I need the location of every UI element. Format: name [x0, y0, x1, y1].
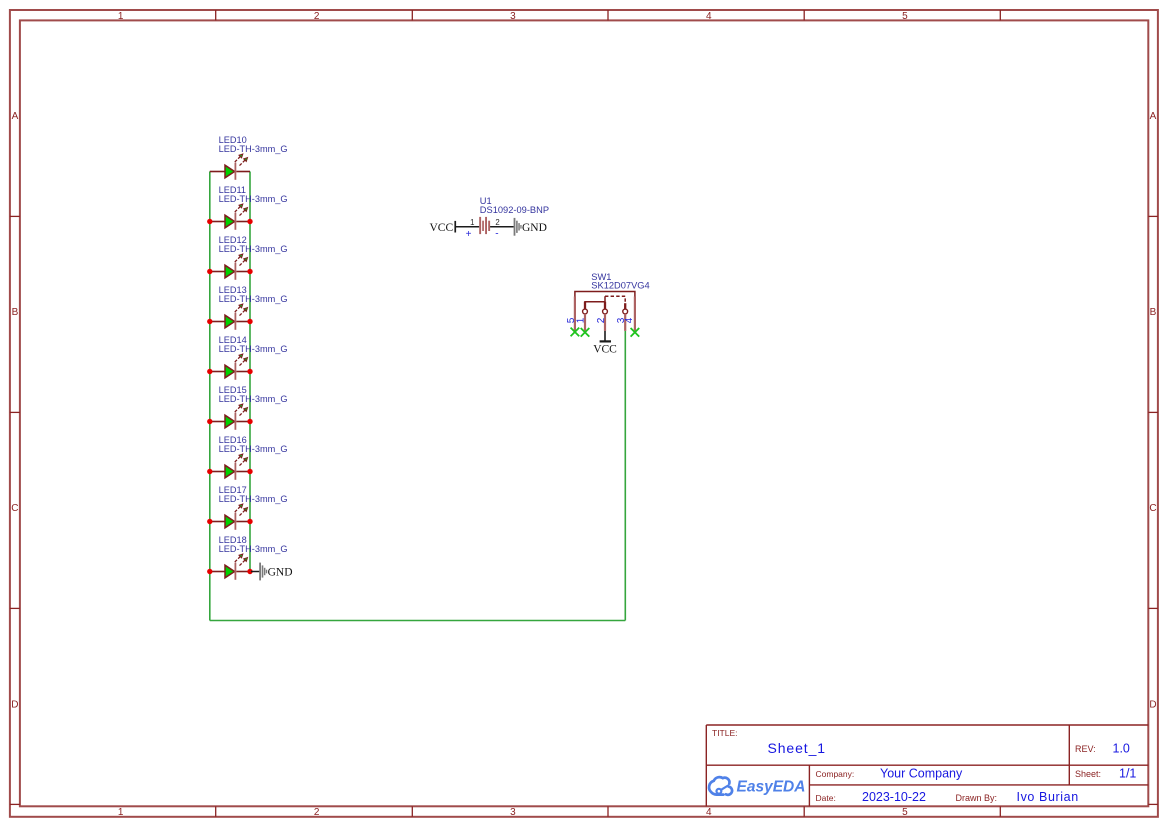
LED17 cathode bar	[235, 513, 237, 530]
svg-text:2: 2	[314, 807, 320, 818]
wire cathode segment LED18	[236, 571, 250, 573]
LED13 triangle (anode)	[225, 315, 235, 328]
LED17 emission arrow 2	[240, 508, 248, 516]
wire: vertical run up to SW1 pin 3	[624, 331, 626, 621]
LED13 emission arrow 2	[240, 308, 248, 316]
LED D17 group: LED17 LED-TH-3mm_G	[210, 485, 288, 530]
LED18 triangle (anode)	[225, 565, 235, 578]
wire cathode segment LED14	[236, 371, 250, 373]
ruler column tick 2 bottom	[411, 806, 413, 817]
LED D11 group: LED11 LED-TH-3mm_G	[210, 185, 288, 230]
wire cathode segment LED15	[236, 421, 250, 423]
junction dot left bus at LED16	[207, 469, 212, 474]
svg-text:3: 3	[510, 807, 516, 818]
LED10 triangle (anode)	[225, 165, 235, 178]
wire anode segment LED14	[210, 371, 225, 373]
SW1 pin 2 stub	[604, 302, 606, 310]
svg-text:LED-TH-3mm_G: LED-TH-3mm_G	[219, 544, 288, 554]
junction dot left bus at LED14	[207, 369, 212, 374]
svg-text:C: C	[1149, 503, 1156, 514]
ruler row tick A right	[1148, 215, 1158, 217]
svg-text:C: C	[11, 503, 18, 514]
LED16 cathode bar	[235, 463, 237, 480]
wire: left anode bus vertical	[209, 172, 211, 621]
switch SW1 body outline	[575, 292, 635, 304]
svg-text:VCC: VCC	[430, 222, 454, 234]
svg-text:D: D	[1149, 699, 1156, 710]
ruler column tick 3 bottom	[607, 806, 609, 817]
LED D16 group: LED16 LED-TH-3mm_G	[210, 435, 288, 480]
svg-text:5: 5	[902, 11, 908, 22]
LED15 triangle (anode)	[225, 415, 235, 428]
wire anode segment LED17	[210, 521, 225, 523]
LED10 emission arrow 1	[235, 154, 243, 162]
wire anode segment LED10	[210, 171, 225, 173]
ruler column tick 5 top	[999, 10, 1001, 20]
svg-text:GND: GND	[522, 222, 547, 234]
power flag VCC at U1 pin 1	[430, 221, 457, 234]
ruler column tick 5 bottom	[999, 806, 1001, 817]
LED14 emission arrow 1	[235, 354, 243, 362]
svg-text:2: 2	[495, 218, 499, 227]
SW1 pin 3 contact circle	[623, 309, 628, 314]
ground flag GND at LED18 cathode	[251, 563, 293, 581]
svg-text:Sheet:: Sheet:	[1075, 769, 1101, 779]
LED11 emission arrow 2	[240, 208, 248, 216]
junction dot right bus at LED15	[247, 419, 252, 424]
wire: bottom horizontal run to switch	[210, 620, 626, 622]
ruler column tick 1 bottom	[215, 806, 217, 817]
power flag VCC at SW1 pin 2	[593, 331, 617, 356]
wire anode segment LED18	[210, 571, 225, 573]
svg-text:5: 5	[902, 807, 908, 818]
svg-text:LED-TH-3mm_G: LED-TH-3mm_G	[219, 344, 288, 354]
svg-text:REV:: REV:	[1075, 744, 1096, 754]
ruler row tick C right	[1148, 607, 1158, 609]
svg-text:4: 4	[706, 807, 712, 818]
wire anode segment LED11	[210, 221, 225, 223]
svg-text:LED-TH-3mm_G: LED-TH-3mm_G	[219, 244, 288, 254]
LED14 emission arrow 2	[240, 358, 248, 366]
LED17 triangle (anode)	[225, 515, 235, 528]
svg-text:D: D	[11, 699, 18, 710]
ruler row tick B right	[1148, 411, 1158, 413]
ruler row tick C left	[10, 607, 20, 609]
LED D18 group: LED18 LED-TH-3mm_G	[210, 535, 288, 580]
ruler row tick D right	[1148, 803, 1158, 805]
ruler row tick A left	[10, 215, 20, 217]
svg-text:2023-10-22: 2023-10-22	[862, 790, 926, 804]
wire cathode segment LED17	[236, 521, 250, 523]
LED18 emission arrow 2	[240, 558, 248, 566]
SW1 pin 4	[634, 297, 636, 331]
svg-text:B: B	[12, 307, 19, 318]
LED11 cathode bar	[235, 213, 237, 230]
LED D13 group: LED13 LED-TH-3mm_G	[210, 285, 288, 330]
SW1 pin 1 lead	[584, 314, 586, 331]
EasyEDA logo cloud	[709, 777, 732, 795]
ruler column tick 3 top	[607, 10, 609, 20]
svg-text:1: 1	[576, 317, 587, 323]
LED15 emission arrow 2	[240, 408, 248, 416]
svg-text:+: +	[466, 229, 472, 240]
LED16 triangle (anode)	[225, 465, 235, 478]
svg-text:LED-TH-3mm_G: LED-TH-3mm_G	[219, 194, 288, 204]
svg-text:SK12D07VG4: SK12D07VG4	[591, 281, 649, 291]
LED18 cathode bar	[235, 563, 237, 580]
junction dot left bus at LED13	[207, 319, 212, 324]
LED12 emission arrow 2	[240, 258, 248, 266]
svg-text:TITLE:: TITLE:	[712, 728, 738, 738]
svg-text:EasyEDA: EasyEDA	[737, 778, 806, 795]
junction dot right bus at LED17	[247, 519, 252, 524]
ruler row tick B left	[10, 411, 20, 413]
svg-text:4: 4	[706, 11, 712, 22]
svg-text:DS1092-09-BNP: DS1092-09-BNP	[480, 205, 549, 215]
svg-text:LED-TH-3mm_G: LED-TH-3mm_G	[219, 494, 288, 504]
svg-text:2: 2	[596, 317, 607, 323]
svg-text:1: 1	[118, 11, 124, 22]
ground flag GND at U1 pin 2	[514, 218, 547, 236]
ruler column tick 4 top	[803, 10, 805, 20]
LED12 cathode bar	[235, 263, 237, 280]
svg-text:VCC: VCC	[593, 344, 617, 356]
svg-text:A: A	[1150, 111, 1157, 122]
svg-text:B: B	[1150, 307, 1157, 318]
wire cathode segment LED12	[236, 271, 250, 273]
SW1 pin 1 stub	[584, 302, 586, 310]
LED14 cathode bar	[235, 363, 237, 380]
LED16 emission arrow 2	[240, 458, 248, 466]
junction dot right bus at LED13	[247, 319, 252, 324]
LED D10 group: LED10 LED-TH-3mm_G	[210, 135, 288, 180]
LED D14 group: LED14 LED-TH-3mm_G	[210, 335, 288, 380]
LED D12 group: LED12 LED-TH-3mm_G	[210, 235, 288, 280]
junction dot right bus at LED14	[247, 369, 252, 374]
wire anode segment LED15	[210, 421, 225, 423]
wire U1 pin 1	[456, 226, 479, 228]
wire anode segment LED13	[210, 321, 225, 323]
junction dot right bus at LED18	[247, 569, 252, 574]
LED D15 group: LED15 LED-TH-3mm_G	[210, 385, 288, 430]
junction dot left bus at LED18	[207, 569, 212, 574]
svg-text:LED-TH-3mm_G: LED-TH-3mm_G	[219, 394, 288, 404]
junction dot left bus at LED15	[207, 419, 212, 424]
ruler column tick 2 top	[411, 10, 413, 20]
SW1 pin 3 stub	[624, 303, 626, 309]
junction dot left bus at LED12	[207, 269, 212, 274]
svg-text:4: 4	[624, 317, 635, 323]
svg-text:1: 1	[118, 807, 124, 818]
no-connect X on SW1 pin 1	[581, 328, 590, 337]
junction dot left bus at LED11	[207, 219, 212, 224]
battery U1 cell bars	[479, 217, 490, 234]
LED16 emission arrow 1	[235, 454, 243, 462]
LED10 cathode bar	[235, 163, 237, 180]
junction dot left bus at LED17	[207, 519, 212, 524]
svg-text:1/1: 1/1	[1119, 767, 1136, 781]
svg-text:LED-TH-3mm_G: LED-TH-3mm_G	[219, 144, 288, 154]
LED15 emission arrow 1	[235, 404, 243, 412]
svg-text:Date:: Date:	[816, 793, 836, 803]
svg-text:Ivo Burian: Ivo Burian	[1017, 790, 1079, 804]
wire: right cathode bus vertical	[249, 172, 251, 572]
no-connect X on SW1 pin 5	[571, 328, 580, 337]
LED11 emission arrow 1	[235, 204, 243, 212]
LED13 cathode bar	[235, 313, 237, 330]
svg-text:Drawn By:: Drawn By:	[956, 793, 998, 803]
LED17 emission arrow 1	[235, 504, 243, 512]
no-connect X on SW1 pin 4	[631, 328, 640, 337]
SW1 pin 5	[574, 297, 576, 331]
junction dot right bus at LED16	[247, 469, 252, 474]
svg-text:A: A	[12, 111, 19, 122]
SW1 pin 2 contact circle	[603, 309, 608, 314]
LED12 triangle (anode)	[225, 265, 235, 278]
LED12 emission arrow 1	[235, 254, 243, 262]
ruler column tick 1 top	[215, 10, 217, 20]
wire cathode segment LED16	[236, 471, 250, 473]
ruler column tick 4 bottom	[803, 806, 805, 817]
ruler row tick D left	[10, 803, 20, 805]
svg-text:2: 2	[314, 11, 320, 22]
wire anode segment LED16	[210, 471, 225, 473]
junction dot right bus at LED12	[247, 269, 252, 274]
LED15 cathode bar	[235, 413, 237, 430]
SW1 pin 2 lead	[604, 314, 606, 331]
svg-text:Sheet_1: Sheet_1	[768, 740, 826, 756]
SW1 pin 3 lead	[624, 314, 626, 331]
svg-text:1: 1	[470, 218, 474, 227]
svg-text:LED-TH-3mm_G: LED-TH-3mm_G	[219, 294, 288, 304]
svg-text:Your Company: Your Company	[880, 767, 963, 781]
svg-text:-: -	[495, 229, 498, 240]
wire cathode segment LED13	[236, 321, 250, 323]
wire anode segment LED12	[210, 271, 225, 273]
LED11 triangle (anode)	[225, 215, 235, 228]
wire cathode segment LED10	[236, 171, 250, 173]
wire cathode segment LED11	[236, 221, 250, 223]
wire U1 pin 2	[490, 226, 514, 228]
svg-text:GND: GND	[268, 567, 293, 579]
svg-text:Company:: Company:	[816, 769, 855, 779]
LED14 triangle (anode)	[225, 365, 235, 378]
title block border lines	[706, 725, 1148, 806]
svg-text:3: 3	[510, 11, 516, 22]
LED13 emission arrow 1	[235, 304, 243, 312]
svg-text:1.0: 1.0	[1113, 742, 1130, 756]
LED18 emission arrow 1	[235, 554, 243, 562]
SW1 pin 1 contact circle	[583, 309, 588, 314]
LED10 emission arrow 2	[240, 158, 248, 166]
svg-text:LED-TH-3mm_G: LED-TH-3mm_G	[219, 444, 288, 454]
junction dot right bus at LED11	[247, 219, 252, 224]
